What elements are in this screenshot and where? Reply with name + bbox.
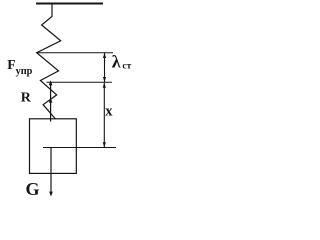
svg-text:ст: ст <box>122 61 131 71</box>
dimension arrow lambda_st (double headed, vertical) <box>103 53 106 82</box>
leader line: static equilibrium level (bottom of lambda) <box>47 81 113 83</box>
svg-text:λ: λ <box>112 52 121 72</box>
leader line: unstretched spring level (top of lambda) <box>37 52 113 54</box>
spring (zigzag coil from ceiling to block) <box>37 4 61 120</box>
dimension arrow x (double headed, vertical) <box>103 83 106 148</box>
svg-text:G: G <box>26 179 40 199</box>
weight vector G (downward arrow from block centre) <box>49 148 53 197</box>
block (load mass) <box>30 119 77 174</box>
force vector R arrowhead (shorter upward arrow, same line) <box>49 98 53 103</box>
ceiling support <box>36 3 103 5</box>
force vector F_upr (upward arrow on block attachment) <box>49 80 53 121</box>
svg-text:R: R <box>21 91 32 106</box>
svg-text:упр: упр <box>16 66 33 77</box>
leader line: displaced level through block centre (bottom of x) <box>43 147 116 149</box>
svg-text:x: x <box>105 104 113 120</box>
svg-text:F: F <box>7 57 15 72</box>
